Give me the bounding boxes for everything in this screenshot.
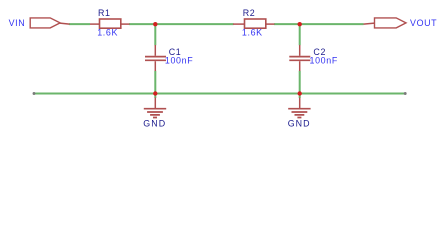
port VOUT flag: [375, 18, 407, 28]
junction ground rail at C2: [298, 91, 302, 95]
port VIN flag: [30, 18, 60, 28]
capacitor C2 top pin: [299, 45, 301, 56]
junction node B: [298, 22, 302, 26]
svg-text:1.6K: 1.6K: [97, 27, 118, 37]
capacitor C1 plates: [145, 57, 166, 61]
svg-text:100nF: 100nF: [165, 55, 193, 65]
capacitor C2 plates: [289, 57, 310, 61]
wire top rail segment VIN to R1: [69, 23, 90, 25]
wire top rail segment R2 to VOUT through node B: [274, 23, 364, 25]
pin wire to R1 left: [90, 23, 100, 25]
pin R2 right to wire: [266, 23, 275, 25]
capacitor C1 bottom pin: [154, 61, 156, 71]
wire node A down to C1: [154, 24, 156, 45]
resistor R2 body: [245, 19, 266, 28]
wire top rail segment R1 to R2 through node A: [129, 23, 234, 25]
pin VIN port to wire: [60, 23, 70, 24]
ground symbol 1 bars: [144, 109, 166, 118]
ground symbol 2 stem: [299, 98, 301, 108]
pin wire to R2 left: [233, 23, 245, 25]
wire node B down to C2: [299, 24, 301, 45]
ground symbol 1 stem: [154, 98, 156, 108]
wire C2 down to ground rail: [299, 71, 301, 98]
pin wire to VOUT port: [364, 23, 375, 24]
wire bottom ground rail: [34, 93, 405, 95]
junction node A: [153, 22, 157, 26]
ground rail left end dot: [33, 92, 36, 95]
svg-text:GND: GND: [143, 118, 166, 128]
svg-text:VIN: VIN: [9, 18, 26, 28]
pin R1 right to wire: [121, 23, 130, 25]
capacitor C2 bottom pin: [299, 61, 301, 71]
svg-text:GND: GND: [288, 118, 311, 128]
svg-text:1.6K: 1.6K: [242, 27, 263, 37]
wire C1 down to ground rail: [154, 71, 156, 98]
svg-text:100nF: 100nF: [310, 55, 338, 65]
resistor R1 body: [100, 19, 121, 28]
capacitor C1 top pin: [154, 45, 156, 56]
svg-text:R2: R2: [243, 8, 256, 18]
ground rail right end dot: [404, 92, 407, 95]
svg-text:R1: R1: [98, 8, 111, 18]
ground symbol 2 bars: [288, 109, 310, 118]
junction ground rail at C1: [153, 91, 157, 95]
svg-text:VOUT: VOUT: [410, 18, 437, 28]
